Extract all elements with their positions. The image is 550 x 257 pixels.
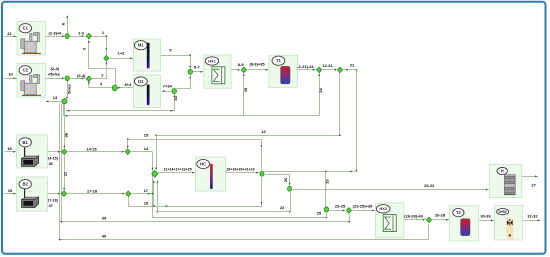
svg-text:(23-25)+39: (23-25)+39 [353, 204, 373, 209]
svg-text:+5elec: +5elec [48, 71, 61, 76]
wire stream 26-28 into T2 [432, 212, 449, 220]
svg-text:20: 20 [283, 178, 288, 182]
wire stream 5 [161, 48, 192, 69]
node mixer after C2 [65, 76, 69, 81]
wire B1 outlet (14-15)-36 [46, 151, 61, 166]
column D1 [133, 75, 160, 108]
heater column HC [195, 157, 225, 191]
wire node to splitter 2-4 [70, 73, 87, 79]
svg-text:15: 15 [144, 133, 149, 138]
wire stream 18 [129, 197, 262, 207]
compressor C2 [17, 64, 46, 98]
svg-text:3+4: 3+4 [124, 82, 132, 87]
svg-text:5-7: 5-7 [194, 65, 201, 70]
node splitter N2 [288, 186, 292, 191]
wire stream 1+2 into M1 [109, 51, 133, 60]
wire stream 21 vertical [356, 70, 358, 172]
wire stream 18 feeder [153, 180, 155, 207]
node mixer 1+2 [104, 55, 109, 61]
wire stream 5-7 into HX1 [192, 65, 203, 73]
svg-text:30-33: 30-33 [480, 214, 491, 219]
svg-text:14-15: 14-15 [86, 147, 97, 152]
wire stream 35 up [243, 73, 248, 116]
wire stream (23-25)+39 into HX2 [352, 204, 375, 212]
wire N3 stub [326, 213, 328, 218]
wire B2 outlet (17-18)-37 [46, 193, 60, 208]
wire stream 1 [93, 30, 108, 56]
svg-text:40: 40 [102, 234, 107, 239]
heater H [489, 164, 522, 197]
domestic hot water DHW [495, 205, 523, 240]
wire T1 outlet (12-21)-24 [295, 64, 316, 71]
svg-text:HX2: HX2 [379, 206, 387, 211]
svg-text:13: 13 [53, 95, 58, 100]
svg-text:M1: M1 [138, 43, 144, 48]
wire HX1 outlet 8-9 [231, 62, 244, 71]
node splitter N1 [260, 171, 264, 176]
svg-text:27: 27 [531, 182, 536, 187]
svg-text:7+34: 7+34 [163, 84, 173, 89]
svg-text:34: 34 [173, 96, 178, 101]
wire stream 21 corner [344, 63, 358, 71]
svg-text:35: 35 [243, 87, 248, 92]
svg-text:1+2: 1+2 [118, 51, 126, 56]
svg-text:20-22: 20-22 [424, 183, 435, 188]
wire stream 25 [152, 211, 327, 219]
svg-text:41: 41 [7, 31, 12, 36]
wire bus 39 vertical+horizontal [60, 104, 349, 223]
wire bus B vertical [63, 104, 65, 116]
svg-text:16: 16 [7, 146, 12, 151]
wire stream 14 to HC [132, 146, 153, 152]
tank T2 [450, 206, 479, 241]
wire stream 10 into C2 [5, 72, 17, 80]
svg-text:24: 24 [318, 88, 323, 93]
wire stream 20-22 into H [293, 183, 489, 190]
wire stream 27 out of H [521, 175, 538, 187]
wire 14/17/25 vertical [152, 152, 154, 218]
wire stream 39 up into node [348, 214, 350, 222]
svg-text:-36: -36 [48, 162, 53, 166]
wire stream 21 from N1 [265, 170, 357, 172]
svg-text:B2: B2 [23, 182, 29, 187]
wire stream 24 up [318, 73, 323, 116]
svg-text:T1: T1 [276, 58, 282, 63]
svg-text:8-9: 8-9 [238, 62, 245, 67]
boiler B2 [17, 177, 48, 211]
svg-text:(2-4): (2-4) [77, 73, 86, 78]
svg-text:(14-15): (14-15) [46, 157, 58, 161]
wire stream 20 to N2 [266, 175, 291, 187]
node splitter after T1 [317, 67, 322, 73]
node mixer 8-9+35 [241, 67, 246, 73]
node mixer 5-7 [188, 69, 193, 74]
node mixer 7+34 [172, 89, 177, 94]
wire stream 12 over [155, 74, 340, 171]
heat exchanger HX2 [376, 203, 404, 238]
svg-text:12: 12 [261, 129, 266, 134]
svg-text:C1: C1 [23, 26, 29, 31]
wire stream 23 to N3 [325, 171, 330, 208]
svg-text:37: 37 [63, 171, 68, 176]
svg-text:26-28: 26-28 [435, 212, 446, 217]
wire stream 13 out [46, 95, 62, 102]
wire stream 19 into B2 [5, 188, 17, 195]
wire stream 12-21 [322, 63, 336, 71]
svg-text:19: 19 [8, 188, 13, 193]
wire stream 4 [88, 81, 112, 87]
boiler B1 [17, 135, 48, 168]
wire HC outlet [225, 168, 259, 174]
svg-text:17-18: 17-18 [87, 188, 98, 193]
svg-text:23-25: 23-25 [335, 204, 346, 209]
mixer column M1 [133, 39, 160, 71]
wire C2 outlet (2-4)+5elec [46, 66, 65, 79]
wire stream 36 up [63, 104, 68, 148]
svg-text:31-32: 31-32 [527, 214, 538, 219]
node splitter 1-3 [86, 33, 91, 39]
wire bus B heat [63, 115, 319, 117]
wire stream 3 elbow [82, 40, 116, 86]
svg-text:17: 17 [144, 188, 149, 193]
node electricity 13 [62, 99, 67, 104]
svg-text:10: 10 [8, 72, 13, 77]
svg-text:39: 39 [102, 215, 107, 220]
node splitter N3 [324, 207, 328, 212]
wire stream 41 into C1 [5, 31, 17, 37]
svg-text:(12-21)-24: (12-21)-24 [295, 64, 314, 69]
node mixer after C1 [65, 34, 69, 39]
wire stream 2 [93, 62, 108, 79]
wire stream 16 into B1 [5, 146, 17, 153]
wire stream 31-32 out [522, 214, 540, 222]
node mixer 26-28 [426, 217, 431, 223]
wire stream 22 [157, 205, 290, 213]
wire stream 14-15 [68, 147, 125, 153]
node splitter 14-15 [125, 149, 130, 155]
svg-text:B1: B1 [23, 140, 29, 145]
wire HX2 outlet (26-28)-40 [404, 213, 426, 220]
wire stream 3+4 into D1 [117, 82, 133, 89]
svg-text:18: 18 [144, 200, 149, 205]
svg-text:HC: HC [200, 162, 206, 167]
node splitter B1 [62, 149, 67, 155]
svg-text:22: 22 [280, 205, 285, 210]
svg-text:12-21: 12-21 [322, 63, 333, 68]
svg-text:21: 21 [350, 63, 355, 68]
svg-text:12+14+17+22+25: 12+14+17+22+25 [163, 168, 191, 172]
heat exchanger HX1 [204, 55, 231, 88]
svg-text:DHW: DHW [499, 210, 508, 214]
wire bus A heat 34 [66, 110, 174, 112]
wire HC inlet [158, 168, 195, 174]
wire C1 outlet (1-3)+6 [46, 31, 65, 38]
node splitter B2 [61, 191, 66, 197]
svg-text:D1: D1 [138, 79, 144, 84]
wire stream 17 up to HC [132, 188, 152, 195]
node splitter 2-4 [86, 76, 91, 82]
wire stream 7 up [177, 76, 192, 89]
node mixer 3+4 [112, 85, 117, 91]
svg-text:25: 25 [317, 211, 322, 216]
wire stream 6 electricity up [61, 16, 69, 34]
node splitter 17-18 [126, 191, 131, 197]
node HC feed mixer [152, 170, 158, 177]
wire stream (8-9)+35 into T1 [247, 61, 268, 70]
wire stream 23-25 [330, 204, 346, 212]
wire stream 37 up [63, 155, 68, 190]
wire 22 feeder [157, 180, 159, 213]
wire stream 7+34 into D1 [162, 84, 173, 92]
wire stream 30-33 into DHW [479, 214, 494, 222]
svg-text:(8-9)+35: (8-9)+35 [249, 61, 265, 66]
wire bus 40 vertical+horizontal [59, 104, 429, 241]
wire stream 15 up-over [127, 133, 263, 171]
svg-text:(26-28)-40: (26-28)-40 [404, 213, 423, 218]
wire stream 17-18 [67, 188, 125, 194]
svg-text:H: H [501, 169, 504, 174]
svg-text:C2: C2 [23, 68, 29, 73]
svg-text:(1-3)+6: (1-3)+6 [48, 31, 62, 36]
node splitter 12-21 [337, 67, 342, 73]
svg-text:1-3: 1-3 [78, 30, 85, 35]
svg-text:15+18+20+21+23: 15+18+20+21+23 [226, 168, 254, 172]
wire stream 5elec down [66, 81, 71, 99]
wire N2 down [290, 192, 292, 212]
svg-text:5elec: 5elec [66, 83, 71, 94]
wire N1 down [261, 177, 263, 206]
svg-text:(17-18): (17-18) [46, 198, 58, 202]
svg-text:-37: -37 [48, 204, 53, 208]
wire stream 34 up [173, 94, 178, 111]
compressor C1 [17, 22, 46, 56]
tank T1 [269, 55, 297, 87]
wire node to splitter 1-3 [70, 30, 86, 37]
node mixer 23-25+39 [346, 208, 351, 214]
svg-text:HX1: HX1 [208, 58, 216, 63]
wire stream 40 up into node [428, 224, 430, 240]
svg-text:T2: T2 [456, 210, 462, 215]
svg-text:14: 14 [144, 146, 149, 151]
svg-text:36: 36 [64, 132, 69, 137]
